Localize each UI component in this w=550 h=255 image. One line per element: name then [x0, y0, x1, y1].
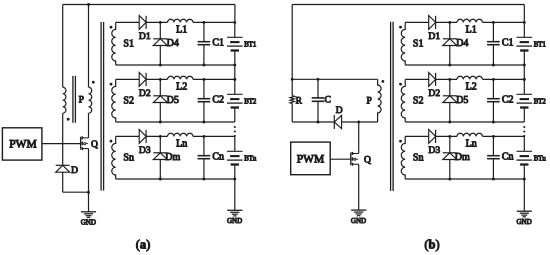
bottom wire [405, 178, 524, 180]
svg-text:Q: Q [91, 139, 98, 150]
svg-text:C2: C2 [212, 95, 224, 106]
node D2-L2 [448, 78, 451, 81]
core pair (b) [390, 22, 392, 191]
resistor R (b) [290, 96, 294, 104]
svg-text:L1: L1 [176, 24, 187, 35]
svg-text:D1: D1 [139, 31, 151, 42]
ground secondary (a) [227, 210, 242, 216]
wire [146, 78, 167, 80]
junction D5 [159, 121, 162, 124]
svg-text:BTn: BTn [534, 156, 547, 163]
svg-text:BT2: BT2 [534, 99, 547, 106]
diode D (a) [56, 164, 70, 166]
ellipsis continuation (b) [523, 126, 525, 128]
mosfet Q (b) gate bar [350, 152, 352, 165]
diode D3 [139, 130, 146, 144]
node drain junction (b) [357, 121, 360, 124]
wire [116, 78, 140, 80]
diode D (b) [334, 115, 341, 128]
diode D4 [159, 22, 161, 38]
junction C2 [492, 121, 495, 124]
polarity dot Sn [399, 140, 402, 143]
wire [193, 21, 235, 23]
svg-text:BT2: BT2 [244, 99, 257, 106]
polarity dot S2 [110, 83, 113, 86]
svg-text:L2: L2 [466, 81, 477, 92]
wire to ground (b-right) [523, 179, 525, 211]
wire [146, 21, 167, 23]
mosfet Q (a) drain stub [82, 137, 88, 139]
junction D4 [448, 64, 451, 67]
battery BT1 [523, 22, 525, 37]
svg-text:Dm: Dm [165, 152, 180, 163]
svg-text:L2: L2 [176, 81, 187, 92]
core pair primary (a) [72, 76, 74, 123]
bottom wire [405, 64, 524, 66]
svg-text:Ln: Ln [176, 138, 187, 149]
secondary winding Sn [112, 136, 116, 179]
svg-text:BT1: BT1 [534, 42, 546, 49]
node L2-C2 [202, 78, 205, 81]
wire [291, 103, 293, 122]
capacitor Cn [492, 136, 494, 155]
mosfet Q (b) source stub [353, 163, 359, 165]
svg-text:P: P [79, 96, 84, 106]
svg-text:C1: C1 [502, 38, 514, 49]
svg-text:BT1: BT1 [244, 42, 256, 49]
svg-text:D5: D5 [456, 95, 468, 106]
wire [193, 78, 235, 80]
diode D2 [429, 73, 436, 87]
secondary winding S2 [401, 79, 405, 122]
svg-text:GND: GND [351, 217, 366, 225]
inductor Ln [457, 133, 483, 136]
node C2-BT2 [523, 78, 526, 81]
mosfet Q (b) body contact [354, 158, 356, 160]
node D1-L1 [448, 21, 451, 24]
battery BT2 [234, 79, 236, 94]
mosfet Q (b) drain stub [353, 153, 359, 155]
polarity dot S1 [399, 26, 402, 29]
bottom wire [405, 121, 524, 123]
wire [483, 78, 525, 80]
junction C1 [202, 64, 205, 67]
diode Dm [159, 136, 161, 152]
battery BT1 [234, 22, 236, 37]
primary winding P (a) [89, 87, 92, 113]
svg-text:D3: D3 [139, 145, 151, 156]
polarity dot S1 [110, 26, 113, 29]
node stack (b) [523, 64, 526, 67]
svg-text:S1: S1 [413, 38, 424, 49]
svg-text:D1: D1 [428, 31, 440, 42]
svg-text:C1: C1 [212, 38, 224, 49]
gate wire (a) [42, 143, 81, 145]
ground primary (b) [351, 210, 366, 216]
wire [342, 121, 378, 123]
left rail (b) [291, 5, 293, 96]
wire [193, 135, 235, 137]
diode D4 [449, 22, 451, 38]
svg-text:S2: S2 [123, 95, 134, 106]
wire [436, 135, 457, 137]
node C2-BT2 [233, 78, 236, 81]
snubber top wire (b) [292, 78, 377, 80]
svg-text:Cn: Cn [502, 152, 514, 163]
svg-text:Sn: Sn [123, 152, 134, 163]
svg-text:C: C [325, 95, 331, 105]
node stack2 (b) [523, 78, 526, 81]
stack wire BT1-S2 (b) [523, 65, 525, 79]
ellipsis continuation (a) [234, 126, 236, 128]
mosfet Q (a) channel segments [81, 136, 83, 139]
svg-text:(b): (b) [424, 238, 439, 252]
mosfet Q (a) gate bar [80, 137, 82, 150]
drain wire (b) [358, 122, 360, 154]
junction Dm [159, 178, 162, 181]
svg-text:D5: D5 [167, 95, 179, 106]
polarity dot Sn [110, 140, 113, 143]
source wire (b) [358, 164, 360, 210]
battery BTn [234, 136, 236, 151]
bottom wire [116, 121, 235, 123]
inductor L2 [168, 76, 194, 79]
wire to ground (a-right) [234, 179, 236, 210]
node ground tap (b) [523, 178, 526, 181]
junction Cn [492, 178, 495, 181]
reset winding [63, 87, 66, 113]
right column wire (b) [523, 5, 525, 23]
junction C1 [492, 64, 495, 67]
node ground tap (a) [233, 178, 236, 181]
svg-text:PWM: PWM [297, 153, 324, 165]
diode D1 [139, 16, 146, 30]
svg-text:L1: L1 [466, 24, 477, 35]
node L1-C1 [492, 21, 495, 24]
node C bottom (b) [317, 121, 320, 124]
primary winding P (b) [377, 79, 381, 122]
svg-text:R: R [296, 96, 303, 106]
mosfet Q (a) source stub [82, 148, 88, 150]
node D3-Ln [448, 135, 451, 138]
svg-text:D2: D2 [428, 88, 440, 99]
node stack (a) [233, 64, 236, 67]
svg-text:Cn: Cn [212, 152, 224, 163]
snubber bottom wire (b) [292, 121, 334, 123]
battery BTn [523, 136, 525, 151]
wire [405, 78, 429, 80]
svg-text:Ln: Ln [466, 138, 477, 149]
node L1-C1 [202, 21, 205, 24]
mosfet Q (a) body contact [84, 143, 86, 145]
svg-text:(a): (a) [136, 238, 151, 252]
svg-text:PWM: PWM [9, 139, 36, 151]
svg-text:Sn: Sn [413, 152, 424, 163]
wire [436, 21, 457, 23]
diode D5 [159, 79, 161, 95]
wire [116, 135, 140, 137]
svg-text:D3: D3 [428, 145, 440, 156]
wire [88, 113, 90, 138]
polarity dot S2 [399, 83, 402, 86]
svg-text:BTn: BTn [244, 156, 257, 163]
wire [62, 172, 64, 192]
diode D3 [429, 130, 436, 144]
polarity dot P (b) [382, 80, 385, 83]
wire [405, 21, 429, 23]
diode D5 [449, 79, 451, 95]
junction D4 [159, 64, 162, 67]
diode D1 [429, 16, 436, 30]
node C top (b) [317, 78, 320, 81]
top rail (b) [292, 4, 524, 6]
svg-text:D2: D2 [139, 88, 151, 99]
inductor L2 [457, 76, 483, 79]
junction Dm [448, 178, 451, 181]
svg-text:C2: C2 [502, 95, 514, 106]
node stack2 (a) [233, 78, 236, 81]
wire to ground (a) [88, 192, 90, 212]
wire [146, 135, 167, 137]
bottom wire [116, 64, 235, 66]
polarity dot P (a) [92, 81, 95, 84]
core pair secondary (a) [100, 22, 102, 191]
capacitor C2 [203, 79, 205, 98]
inductor L1 [168, 19, 194, 22]
diode D2 [139, 73, 146, 87]
ground secondary (b) [517, 211, 532, 217]
node Ln-Cn [492, 135, 495, 138]
junction D5 [448, 121, 451, 124]
reset winding branch wire [62, 5, 64, 88]
PWM box (a) [2, 128, 42, 160]
svg-text:D4: D4 [456, 38, 468, 49]
node C1-BT1 [233, 21, 236, 24]
capacitor Cn [203, 136, 205, 155]
node D1-L1 [159, 21, 162, 24]
diode Dm [449, 136, 451, 152]
junction Cn [202, 178, 205, 181]
bottom wire [116, 178, 235, 180]
mosfet Q (b) channel segments [352, 152, 354, 155]
gate wire (b) [330, 158, 351, 160]
secondary winding S1 [112, 22, 116, 65]
svg-text:Q: Q [364, 154, 371, 165]
wire [116, 21, 140, 23]
battery BT2 [523, 79, 525, 94]
wire [483, 135, 525, 137]
wire [436, 78, 457, 80]
node D3-Ln [159, 135, 162, 138]
source wire (a) [88, 149, 90, 193]
svg-text:GND: GND [517, 218, 532, 226]
svg-text:GND: GND [81, 218, 96, 226]
node C1-BT1 [523, 21, 526, 24]
top rail (a) [63, 4, 235, 6]
secondary winding S2 [112, 79, 116, 122]
inductor L1 [457, 19, 483, 22]
right column wire (a) [234, 5, 236, 23]
node primary tap (a) [87, 3, 90, 6]
node snubber top-left (b) [291, 78, 294, 81]
wire [405, 135, 429, 137]
wire [62, 113, 64, 165]
svg-text:D4: D4 [167, 38, 179, 49]
svg-text:S1: S1 [123, 38, 134, 49]
capacitor C1 [203, 22, 205, 41]
node D2-L2 [159, 78, 162, 81]
svg-text:P: P [367, 97, 372, 107]
ground primary (a) [81, 212, 96, 218]
primary P wire (a) [88, 5, 90, 88]
node Ln-Cn [202, 135, 205, 138]
svg-text:GND: GND [227, 217, 242, 225]
inductor Ln [168, 133, 194, 136]
capacitor C2 [492, 79, 494, 98]
svg-text:Dm: Dm [455, 152, 470, 163]
stack wire BT1-S2 (a) [234, 65, 236, 79]
secondary winding Sn [401, 136, 405, 179]
node L2-C2 [492, 78, 495, 81]
svg-text:D: D [336, 106, 343, 116]
PWM box (b) [291, 142, 331, 175]
capacitor C1 [492, 22, 494, 41]
secondary winding S1 [401, 22, 405, 65]
svg-text:S2: S2 [413, 95, 424, 106]
node source-D junction (a) [87, 191, 90, 194]
polarity dot reset winding [67, 118, 70, 121]
junction C2 [202, 121, 205, 124]
svg-text:D: D [71, 166, 78, 176]
wire [483, 21, 525, 23]
capacitor C (b) [317, 79, 319, 98]
